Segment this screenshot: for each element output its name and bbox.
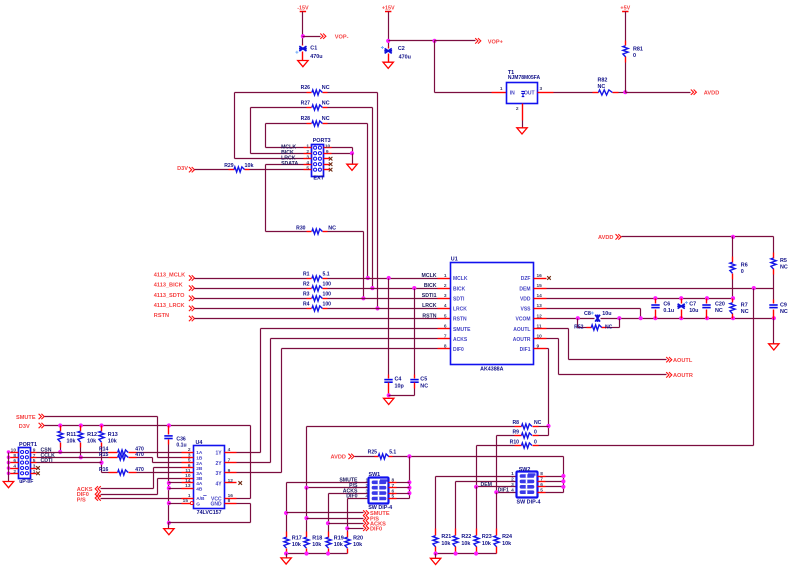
svg-text:R20: R20	[353, 535, 363, 541]
svg-text:AOUTL: AOUTL	[513, 327, 530, 333]
svg-text:4: 4	[511, 487, 514, 493]
svg-text:RSTN: RSTN	[453, 317, 467, 323]
svg-text:13: 13	[185, 483, 191, 489]
svg-text:2: 2	[13, 469, 16, 475]
svg-text:R24: R24	[502, 534, 512, 540]
svg-text:MCLK: MCLK	[422, 273, 437, 279]
svg-text:1: 1	[444, 273, 447, 279]
svg-text:BICK: BICK	[453, 286, 466, 292]
svg-text:R10: R10	[510, 440, 520, 446]
svg-text:R7: R7	[741, 303, 748, 309]
svg-text:10k: 10k	[245, 163, 254, 169]
svg-text:PORT3: PORT3	[313, 138, 331, 144]
svg-text:NC: NC	[780, 309, 788, 315]
svg-text:2: 2	[444, 283, 447, 289]
svg-text:16: 16	[228, 493, 234, 499]
svg-text:+15V: +15V	[382, 6, 395, 12]
svg-text:NJM78M05FA: NJM78M05FA	[508, 75, 541, 81]
svg-text:GND: GND	[210, 501, 222, 507]
svg-text:5: 5	[33, 458, 36, 464]
svg-text:2A: 2A	[196, 461, 203, 467]
svg-text:3: 3	[188, 452, 191, 458]
svg-text:LRCK: LRCK	[422, 303, 437, 309]
svg-text:NC: NC	[328, 225, 336, 231]
svg-text:PORT1: PORT1	[19, 442, 37, 448]
svg-text:D3V: D3V	[19, 424, 30, 430]
svg-text:5: 5	[540, 487, 543, 493]
svg-text:VSS: VSS	[520, 307, 531, 313]
svg-text:DEM: DEM	[480, 482, 492, 488]
svg-text:10p: 10p	[395, 384, 405, 390]
svg-text:10k: 10k	[482, 541, 491, 547]
svg-text:R25: R25	[368, 450, 378, 456]
svg-text:R30: R30	[296, 225, 306, 231]
svg-text:AK4388A: AK4388A	[480, 367, 503, 373]
svg-text:VOP+: VOP+	[488, 39, 504, 45]
svg-text:-15V: -15V	[297, 6, 309, 12]
svg-text:R29: R29	[224, 163, 234, 169]
svg-text:2: 2	[516, 106, 519, 112]
svg-text:NC: NC	[598, 84, 606, 90]
svg-text:NC: NC	[322, 116, 330, 122]
svg-text:1A: 1A	[196, 450, 203, 456]
svg-text:P/S: P/S	[77, 497, 86, 503]
svg-text:5.1: 5.1	[389, 450, 396, 456]
svg-text:AOUTL: AOUTL	[673, 358, 693, 364]
svg-text:R18: R18	[312, 535, 322, 541]
svg-text:0.1u: 0.1u	[663, 308, 674, 314]
svg-text:100: 100	[323, 292, 332, 298]
svg-text:RSTN: RSTN	[154, 313, 169, 319]
svg-text:8: 8	[540, 471, 543, 477]
svg-text:1: 1	[511, 471, 514, 477]
svg-text:C7: C7	[689, 302, 696, 308]
svg-text:4Y: 4Y	[215, 481, 222, 487]
svg-text:R12: R12	[87, 432, 97, 438]
svg-text:4113_MCLK: 4113_MCLK	[154, 273, 185, 279]
svg-text:DIF0: DIF0	[453, 347, 464, 353]
svg-text:AVDD: AVDD	[598, 235, 613, 241]
svg-text:2B: 2B	[196, 466, 203, 472]
svg-text:4: 4	[306, 160, 309, 166]
svg-text:R26: R26	[301, 85, 311, 91]
svg-text:C9: C9	[780, 303, 787, 309]
svg-text:NC: NC	[605, 325, 613, 331]
svg-text:SDTI1: SDTI1	[422, 293, 437, 299]
svg-text:AVDD: AVDD	[331, 455, 346, 461]
svg-text:3: 3	[540, 86, 543, 92]
svg-text:R21: R21	[441, 534, 451, 540]
svg-text:R3: R3	[303, 292, 310, 298]
svg-text:SW2: SW2	[519, 467, 531, 473]
svg-text:10: 10	[325, 143, 331, 149]
svg-text:NC: NC	[715, 308, 723, 314]
svg-text:10k: 10k	[67, 438, 76, 444]
svg-text:R81: R81	[633, 47, 643, 53]
svg-text:SDTI: SDTI	[453, 296, 465, 302]
svg-text:1: 1	[33, 469, 36, 475]
svg-text:R16: R16	[99, 467, 109, 473]
svg-text:AOUTR: AOUTR	[513, 337, 531, 343]
svg-text:10k: 10k	[108, 438, 117, 444]
svg-text:SW DIP-4: SW DIP-4	[368, 505, 392, 511]
svg-text:DIF0: DIF0	[346, 494, 357, 500]
svg-text:AOUTR: AOUTR	[673, 373, 693, 379]
svg-text:A/B: A/B	[196, 496, 205, 502]
svg-text:CDTI: CDTI	[41, 458, 54, 464]
svg-text:1: 1	[500, 86, 503, 92]
svg-text:R22: R22	[461, 534, 471, 540]
svg-text:SW1: SW1	[369, 472, 381, 478]
svg-text:1Y: 1Y	[215, 450, 222, 456]
svg-text:DIF1: DIF1	[520, 347, 531, 353]
svg-text:1: 1	[188, 493, 191, 499]
svg-text:0: 0	[633, 53, 636, 59]
svg-text:C4: C4	[395, 376, 402, 382]
svg-text:15: 15	[183, 498, 189, 504]
svg-text:ACKS: ACKS	[453, 337, 468, 343]
svg-text:uP-I/F: uP-I/F	[19, 479, 33, 485]
svg-text:R52: R52	[574, 325, 584, 331]
svg-text:EXT: EXT	[313, 176, 324, 182]
svg-text:6: 6	[540, 482, 543, 488]
svg-text:8: 8	[13, 453, 16, 459]
svg-text:14: 14	[185, 478, 191, 484]
svg-text:3Y: 3Y	[215, 471, 222, 477]
svg-text:10k: 10k	[312, 542, 321, 548]
svg-text:470u: 470u	[399, 54, 411, 60]
svg-text:7: 7	[444, 334, 447, 340]
svg-text:100: 100	[323, 281, 332, 287]
svg-text:7: 7	[540, 477, 543, 483]
svg-text:4: 4	[228, 447, 231, 453]
svg-text:MCLK: MCLK	[453, 276, 468, 282]
svg-text:AVDD: AVDD	[704, 91, 719, 97]
svg-text:12: 12	[228, 478, 234, 484]
svg-text:470u: 470u	[310, 54, 322, 60]
svg-text:NC: NC	[420, 384, 428, 390]
svg-text:R15: R15	[99, 452, 109, 458]
svg-text:0: 0	[741, 269, 744, 275]
svg-text:6: 6	[188, 463, 191, 469]
svg-text:9: 9	[326, 149, 329, 155]
svg-text:R17: R17	[292, 535, 302, 541]
svg-text:6: 6	[13, 458, 16, 464]
svg-text:0: 0	[534, 440, 537, 446]
svg-text:7: 7	[392, 483, 395, 489]
svg-text:10u: 10u	[689, 308, 698, 314]
svg-text:7: 7	[228, 458, 231, 464]
svg-text:2Y: 2Y	[215, 461, 222, 467]
svg-text:2: 2	[188, 447, 191, 453]
svg-text:+5V: +5V	[620, 6, 630, 12]
svg-text:10k: 10k	[87, 438, 96, 444]
svg-text:DIF1: DIF1	[498, 488, 509, 494]
svg-text:R82: R82	[598, 78, 608, 84]
svg-text:10u: 10u	[602, 311, 611, 317]
svg-text:R11: R11	[67, 432, 77, 438]
svg-text:5: 5	[306, 166, 309, 172]
svg-text:VOP-: VOP-	[335, 34, 349, 40]
svg-text:DZF: DZF	[521, 276, 531, 282]
svg-text:IN: IN	[510, 90, 515, 96]
svg-text:4B: 4B	[196, 486, 203, 492]
svg-text:R13: R13	[108, 432, 118, 438]
svg-text:4: 4	[444, 303, 447, 309]
svg-text:3A: 3A	[196, 471, 203, 477]
svg-text:NC: NC	[534, 420, 542, 426]
svg-text:0: 0	[534, 430, 537, 436]
svg-text:LRCK: LRCK	[453, 307, 467, 313]
svg-text:9: 9	[228, 468, 231, 474]
svg-text:10k: 10k	[334, 542, 343, 548]
svg-text:R9: R9	[512, 430, 519, 436]
svg-text:BICK: BICK	[424, 283, 437, 289]
svg-text:4: 4	[13, 464, 16, 470]
svg-text:3: 3	[306, 155, 309, 161]
svg-text:R23: R23	[482, 534, 492, 540]
svg-text:3: 3	[511, 482, 514, 488]
svg-text:5: 5	[444, 313, 447, 319]
svg-text:R2: R2	[303, 281, 310, 287]
svg-text:SDATA: SDATA	[281, 161, 298, 167]
svg-text:U1: U1	[451, 257, 458, 263]
svg-text:5: 5	[392, 494, 395, 500]
svg-text:1: 1	[306, 144, 309, 150]
svg-text:2: 2	[306, 149, 309, 155]
svg-text:5: 5	[188, 458, 191, 464]
svg-text:VDD: VDD	[520, 296, 531, 302]
svg-text:OUT: OUT	[524, 90, 535, 96]
svg-text:NC: NC	[780, 265, 788, 271]
svg-text:NC: NC	[322, 85, 330, 91]
svg-text:7: 7	[33, 453, 36, 459]
svg-text:10k: 10k	[441, 541, 450, 547]
svg-text:4113_SDTO: 4113_SDTO	[154, 293, 185, 299]
svg-text:R8: R8	[512, 420, 519, 426]
svg-text:4113_LRCK: 4113_LRCK	[154, 303, 185, 309]
svg-text:8: 8	[228, 498, 231, 504]
svg-text:5.1: 5.1	[323, 271, 330, 277]
svg-text:4113_BICK: 4113_BICK	[154, 283, 183, 289]
svg-text:SW DIP-4: SW DIP-4	[517, 499, 541, 505]
svg-text:100: 100	[323, 302, 332, 308]
svg-text:1B: 1B	[196, 456, 203, 462]
svg-text:6: 6	[444, 323, 447, 329]
svg-text:10k: 10k	[353, 542, 362, 548]
svg-text:3: 3	[33, 464, 36, 470]
svg-text:11: 11	[185, 468, 190, 474]
svg-text:3: 3	[444, 293, 447, 299]
svg-text:10: 10	[11, 448, 17, 454]
svg-text:DIF0: DIF0	[370, 527, 382, 533]
svg-text:R1: R1	[303, 271, 310, 277]
svg-text:R5: R5	[780, 258, 787, 264]
svg-text:6: 6	[392, 488, 395, 494]
svg-text:R4: R4	[303, 302, 310, 308]
svg-text:RSTN: RSTN	[422, 313, 436, 319]
svg-text:8: 8	[392, 478, 395, 484]
svg-text:U4: U4	[196, 440, 203, 446]
svg-text:C20: C20	[715, 302, 725, 308]
svg-text:10k: 10k	[292, 542, 301, 548]
svg-text:NC: NC	[322, 100, 330, 106]
svg-text:VCOM: VCOM	[516, 317, 531, 323]
svg-text:R19: R19	[334, 535, 344, 541]
svg-text:C2: C2	[398, 46, 405, 52]
svg-text:D3V: D3V	[177, 166, 188, 172]
svg-text:R6: R6	[741, 263, 748, 269]
svg-text:C8: C8	[584, 311, 591, 317]
svg-text:C6: C6	[663, 302, 670, 308]
svg-text:0.1u: 0.1u	[176, 443, 186, 449]
svg-text:8: 8	[444, 344, 447, 350]
svg-text:R28: R28	[301, 116, 311, 122]
svg-text:9: 9	[33, 448, 36, 454]
svg-text:4A: 4A	[196, 481, 203, 487]
svg-text:C36: C36	[176, 436, 186, 442]
svg-text:2: 2	[511, 477, 514, 483]
svg-text:R27: R27	[301, 100, 311, 106]
svg-text:SMUTE: SMUTE	[16, 415, 36, 421]
svg-text:SMUTE: SMUTE	[453, 327, 471, 333]
svg-text:DEM: DEM	[519, 286, 530, 292]
svg-text:C5: C5	[420, 376, 427, 382]
svg-text:NC: NC	[741, 309, 749, 315]
svg-text:74LVC157: 74LVC157	[197, 510, 222, 516]
svg-text:C1: C1	[310, 45, 317, 51]
svg-text:G: G	[196, 501, 200, 507]
svg-text:10k: 10k	[461, 541, 470, 547]
svg-text:10k: 10k	[502, 541, 511, 547]
